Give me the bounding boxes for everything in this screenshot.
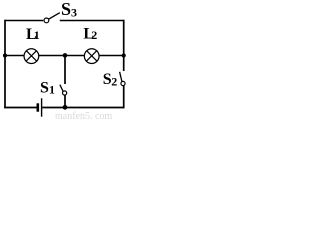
wire bottom-left segment (4, 107, 36, 109)
svg-text:S: S (61, 0, 71, 19)
label S2 (103, 71, 118, 89)
svg-text:2: 2 (91, 28, 97, 42)
battery (38, 98, 42, 116)
node bottom junction (63, 105, 68, 110)
wire middle-left segment (5, 55, 24, 57)
svg-text:S: S (40, 79, 49, 96)
lamp L1 (24, 49, 39, 64)
wire bottom-right segment (42, 107, 124, 109)
svg-text:1: 1 (34, 28, 40, 42)
node middle junction (63, 53, 68, 58)
switch S1 (60, 85, 67, 95)
wire left side (4, 20, 6, 109)
label L1 (26, 26, 40, 43)
wire right side lower (123, 85, 125, 108)
wire top-left segment (5, 20, 43, 22)
svg-text:manfen5. com: manfen5. com (55, 111, 112, 120)
node left junction (3, 53, 7, 57)
wire middle-right segment (99, 55, 124, 57)
wire right side upper (123, 20, 125, 71)
lamp L2 (84, 49, 99, 64)
switch S3 (44, 13, 60, 23)
switch S2 (120, 72, 126, 86)
node right junction (122, 53, 126, 57)
wire middle-center segment (39, 55, 85, 57)
wire middle branch upper (64, 56, 66, 85)
wire middle branch lower (64, 95, 66, 108)
svg-text:3: 3 (71, 6, 77, 20)
label L2 (83, 25, 97, 42)
svg-text:2: 2 (111, 75, 117, 89)
wire top-right segment (60, 20, 125, 22)
label S1 (40, 79, 55, 96)
label S3 (61, 0, 77, 20)
svg-text:1: 1 (49, 83, 55, 97)
